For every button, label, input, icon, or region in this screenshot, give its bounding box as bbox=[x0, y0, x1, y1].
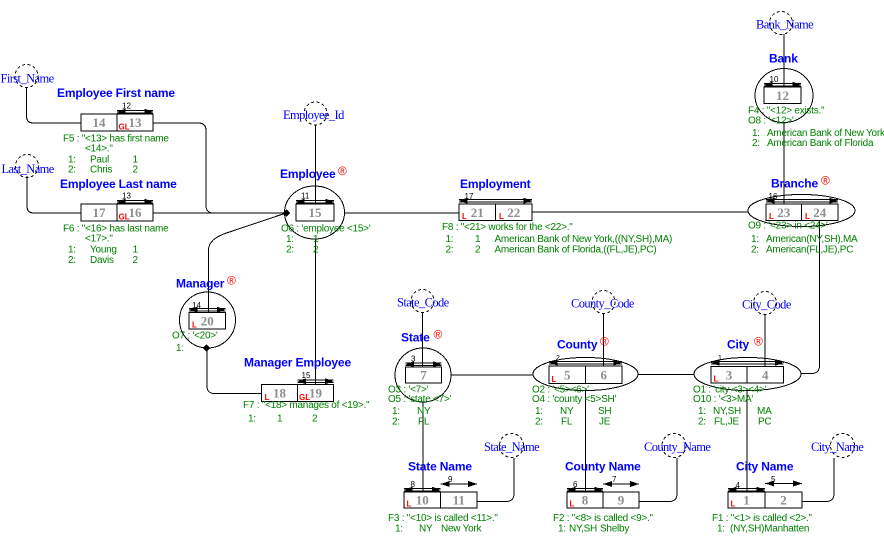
junction Employee connection point bbox=[283, 209, 290, 217]
svg-text:15: 15 bbox=[302, 371, 311, 380]
svg-text:NY: NY bbox=[419, 524, 433, 535]
role box 4 bbox=[747, 367, 784, 384]
svg-text:O6 : 'employee <15>': O6 : 'employee <15>' bbox=[281, 224, 371, 235]
svg-text:Manager Employee: Manager Employee bbox=[244, 356, 351, 370]
svg-text:1:: 1: bbox=[176, 343, 184, 354]
uniqueness arrow 8 bbox=[404, 480, 441, 493]
svg-text:First_Name: First_Name bbox=[1, 71, 55, 85]
svg-text:Employee First name: Employee First name bbox=[57, 86, 175, 100]
role box 22 bbox=[496, 204, 533, 221]
svg-text:O10 : '<3>MA': O10 : '<3>MA' bbox=[693, 394, 753, 405]
svg-text:L: L bbox=[552, 375, 557, 384]
role box 2 bbox=[765, 492, 802, 508]
role box 7 bbox=[406, 367, 442, 383]
role box 23 bbox=[766, 204, 802, 221]
svg-text:FL: FL bbox=[561, 416, 573, 427]
svg-text:®: ® bbox=[821, 174, 830, 188]
svg-text:F3 : "<10> is called <11>.": F3 : "<10> is called <11>." bbox=[388, 513, 498, 524]
wire Last_Name to role 17 bbox=[27, 176, 81, 213]
svg-text:10: 10 bbox=[416, 493, 429, 508]
svg-text:Manager: Manager bbox=[176, 277, 225, 291]
wire Manager junction to role 18 bbox=[207, 348, 262, 394]
svg-text:Bank_Name: Bank_Name bbox=[756, 18, 814, 32]
uniqueness arrow 1 bbox=[711, 355, 784, 366]
svg-text:PC: PC bbox=[758, 416, 771, 427]
svg-text:F5 : "<13> has first name: F5 : "<13> has first name bbox=[63, 134, 169, 145]
svg-text:City Name: City Name bbox=[736, 460, 794, 474]
junction Manager connection point bbox=[203, 344, 210, 352]
svg-text:5: 5 bbox=[564, 367, 571, 382]
wire County entity to role 8 bbox=[585, 391, 587, 493]
entity type Bank (ellipse) bbox=[755, 69, 813, 123]
svg-text:6: 6 bbox=[601, 367, 608, 382]
svg-text:2: 2 bbox=[475, 244, 481, 255]
svg-text:O8 : '<12>': O8 : '<12>' bbox=[748, 115, 794, 126]
svg-text:2: 2 bbox=[556, 355, 560, 362]
wire Employee_Id to role 15 bbox=[315, 125, 317, 205]
svg-text:12: 12 bbox=[776, 88, 789, 103]
svg-text:F1 : "<1> is called <2>.": F1 : "<1> is called <2>." bbox=[712, 513, 813, 524]
svg-text:22: 22 bbox=[507, 205, 520, 220]
svg-text:Employment: Employment bbox=[460, 177, 531, 191]
svg-text:2:: 2: bbox=[286, 244, 294, 255]
role box 16 bbox=[117, 204, 153, 221]
svg-text:Employee_Id: Employee_Id bbox=[283, 108, 345, 122]
uniqueness arrow 15 bbox=[298, 371, 334, 384]
role box 14 bbox=[81, 114, 117, 131]
svg-text:L: L bbox=[499, 212, 504, 221]
svg-text:County_Name: County_Name bbox=[644, 440, 711, 454]
svg-text:2: 2 bbox=[133, 165, 139, 176]
wire role 2 to City_Name bbox=[802, 458, 834, 502]
svg-text:American(FL,JE),PC: American(FL,JE),PC bbox=[766, 244, 853, 255]
role box 18 bbox=[262, 385, 298, 402]
svg-text:14: 14 bbox=[192, 301, 201, 310]
svg-text:State_Code: State_Code bbox=[397, 296, 450, 310]
role box 10 bbox=[404, 492, 441, 508]
wire role 9 to County_Name bbox=[639, 458, 677, 502]
wire State entity to role 10 bbox=[422, 403, 424, 493]
entity type Manager (circle) bbox=[180, 292, 236, 348]
svg-text:State_Name: State_Name bbox=[484, 440, 540, 454]
svg-text:10: 10 bbox=[770, 75, 779, 84]
wire Bank_Name to role 12 bbox=[783, 34, 785, 87]
uniqueness arrow 9 (single) bbox=[441, 475, 478, 487]
svg-text:Employee: Employee bbox=[280, 167, 336, 181]
wire County_Code to role 6 bbox=[603, 313, 605, 366]
svg-text:L: L bbox=[731, 500, 736, 509]
svg-text:County: County bbox=[557, 338, 598, 352]
svg-text:2: 2 bbox=[313, 244, 319, 255]
svg-text:2:: 2: bbox=[446, 244, 454, 255]
svg-text:2:: 2: bbox=[698, 416, 706, 427]
svg-text:Employee Last name: Employee Last name bbox=[60, 177, 177, 191]
role box 20 bbox=[189, 313, 226, 330]
wire role 13 to Employee junction bbox=[153, 123, 287, 213]
svg-text:23: 23 bbox=[777, 205, 791, 220]
entity type City (ellipse) bbox=[694, 358, 801, 391]
svg-text:Shelby: Shelby bbox=[600, 524, 629, 535]
uniqueness arrow 16 bbox=[766, 192, 838, 204]
svg-text:3: 3 bbox=[726, 367, 733, 382]
wire State_Code to role 7 bbox=[422, 312, 424, 367]
wire Employee junction to Manager entity bbox=[209, 213, 288, 313]
role box 1 bbox=[728, 492, 765, 508]
svg-text:16: 16 bbox=[769, 192, 778, 201]
uniqueness arrow 6 bbox=[567, 480, 603, 493]
role box 5 bbox=[549, 366, 586, 384]
wire Bank entity to role 23 bbox=[783, 123, 785, 204]
entity type State (ellipse) bbox=[395, 348, 451, 402]
svg-text:1:: 1: bbox=[395, 524, 403, 535]
role box 12 bbox=[764, 87, 801, 104]
svg-text:American Bank of Florida: American Bank of Florida bbox=[767, 138, 874, 149]
svg-text:16: 16 bbox=[129, 205, 143, 220]
svg-text:O9 : '<23> in <24>': O9 : '<23> in <24>' bbox=[748, 221, 828, 232]
uniqueness arrow 10 bbox=[764, 75, 801, 88]
svg-text:1: 1 bbox=[718, 355, 722, 362]
svg-text:1: 1 bbox=[277, 413, 283, 424]
svg-text:8: 8 bbox=[411, 480, 416, 489]
role box 3 bbox=[711, 367, 747, 384]
svg-text:L: L bbox=[462, 212, 467, 221]
svg-text:3: 3 bbox=[411, 355, 416, 364]
entity type County (ellipse) bbox=[533, 358, 638, 391]
svg-text:L: L bbox=[192, 321, 197, 330]
wire County entity to City entity bbox=[638, 374, 694, 376]
svg-text:L: L bbox=[570, 500, 575, 509]
svg-text:County_Code: County_Code bbox=[571, 297, 635, 311]
svg-text:17: 17 bbox=[93, 205, 107, 220]
uniqueness arrow 4 bbox=[728, 481, 765, 493]
svg-text:®: ® bbox=[338, 164, 347, 178]
role box 15 bbox=[296, 204, 334, 221]
svg-text:GL: GL bbox=[119, 213, 130, 222]
svg-text:17: 17 bbox=[465, 192, 474, 201]
wire role 24 to City entity bbox=[801, 221, 820, 374]
svg-text:Davis: Davis bbox=[90, 255, 114, 266]
role box 24 bbox=[802, 204, 839, 221]
lexical object type circle Last_Name bbox=[16, 155, 39, 178]
svg-text:7: 7 bbox=[420, 368, 427, 383]
svg-text:1:: 1: bbox=[717, 524, 725, 535]
svg-text:GL: GL bbox=[119, 123, 130, 132]
svg-text:O4 : 'county <5>SH': O4 : 'county <5>SH' bbox=[532, 394, 616, 405]
svg-text:2:: 2: bbox=[68, 165, 76, 176]
svg-text:®: ® bbox=[434, 328, 443, 342]
svg-text:5: 5 bbox=[771, 475, 776, 484]
svg-text:24: 24 bbox=[813, 205, 827, 220]
svg-text:20: 20 bbox=[201, 313, 214, 328]
svg-text:1:: 1: bbox=[248, 413, 256, 424]
svg-text:F2 : "<8> is called <9>.": F2 : "<8> is called <9>." bbox=[553, 513, 654, 524]
wire role 16 to Employee junction bbox=[153, 212, 287, 214]
lexical object type circle County_Code bbox=[592, 291, 615, 314]
svg-text:7: 7 bbox=[612, 475, 617, 484]
svg-text:14: 14 bbox=[93, 115, 107, 130]
svg-text:State: State bbox=[401, 331, 430, 345]
uniqueness arrow 12 bbox=[117, 102, 153, 115]
svg-text:18: 18 bbox=[273, 386, 287, 401]
svg-text:FL,JE: FL,JE bbox=[714, 416, 739, 427]
svg-text:9: 9 bbox=[618, 493, 625, 508]
svg-text:15: 15 bbox=[309, 205, 323, 220]
svg-text:19: 19 bbox=[309, 386, 323, 401]
svg-text:New York: New York bbox=[441, 524, 482, 535]
wire State entity to County entity bbox=[451, 374, 534, 376]
lexical object type circle State_Code bbox=[411, 290, 434, 313]
wire role 22 to Branche entity bbox=[532, 211, 748, 213]
svg-text:4: 4 bbox=[736, 481, 741, 490]
svg-text:Last_Name: Last_Name bbox=[2, 162, 55, 176]
svg-text:L: L bbox=[407, 500, 412, 509]
uniqueness arrow 2 bbox=[549, 355, 622, 366]
lexical object type circle Employee_Id bbox=[304, 102, 327, 125]
svg-text:County Name: County Name bbox=[565, 460, 641, 474]
svg-text:2: 2 bbox=[133, 255, 139, 266]
svg-text:12: 12 bbox=[122, 102, 131, 111]
svg-text:O7 : '<20>': O7 : '<20>' bbox=[172, 331, 218, 342]
role box 21 bbox=[459, 204, 496, 221]
svg-text:6: 6 bbox=[573, 480, 578, 489]
svg-text:City_Code: City_Code bbox=[742, 298, 792, 312]
uniqueness arrow 7 (single) bbox=[603, 475, 639, 487]
svg-text:<14>.": <14>." bbox=[85, 144, 113, 155]
svg-text:Branche: Branche bbox=[771, 177, 818, 191]
uniqueness arrow 3 bbox=[406, 355, 442, 368]
uniqueness arrow 13 bbox=[117, 192, 153, 205]
svg-text:21: 21 bbox=[471, 205, 484, 220]
wire Employee entity to role 21 bbox=[345, 212, 460, 214]
wire City entity to role 1 bbox=[746, 391, 748, 493]
wire First_Name to role 14 bbox=[27, 88, 82, 124]
uniqueness arrow 5 (single) bbox=[765, 475, 802, 487]
svg-text:JE: JE bbox=[599, 416, 611, 427]
wire role 11 to State_Name bbox=[477, 458, 514, 502]
svg-text:<17>.": <17>." bbox=[85, 234, 113, 245]
lexical object type circle State_Name bbox=[500, 434, 524, 458]
svg-text:Bank: Bank bbox=[769, 52, 798, 66]
svg-text:13: 13 bbox=[122, 192, 131, 201]
role box 11 bbox=[441, 492, 478, 508]
svg-text:American Bank of Florida,((FL,: American Bank of Florida,((FL,JE),PC) bbox=[495, 244, 657, 255]
role box 17 bbox=[81, 204, 117, 221]
svg-text:City_Name: City_Name bbox=[811, 440, 864, 454]
svg-text:9: 9 bbox=[448, 475, 453, 484]
svg-text:F8 : "<21> works for the <22>.: F8 : "<21> works for the <22>." bbox=[442, 222, 573, 233]
lexical object type circle Bank_Name bbox=[770, 12, 793, 35]
uniqueness arrow 17 bbox=[459, 192, 532, 204]
svg-text:2:: 2: bbox=[68, 255, 76, 266]
svg-text:1: 1 bbox=[743, 493, 750, 508]
lexical object type circle First_Name bbox=[15, 65, 38, 88]
svg-text:F6 : "<16> has last name: F6 : "<16> has last name bbox=[63, 224, 169, 235]
role box 6 bbox=[586, 366, 623, 384]
role box 19 bbox=[298, 385, 334, 402]
uniqueness arrow 11 bbox=[296, 192, 334, 205]
wire Employee entity to role 19 bbox=[315, 239, 317, 385]
role box 8 bbox=[567, 492, 603, 508]
svg-text:2: 2 bbox=[312, 413, 318, 424]
svg-text:2:: 2: bbox=[392, 416, 400, 427]
svg-text:2:: 2: bbox=[535, 416, 543, 427]
entity type Branche (ellipse) bbox=[748, 195, 855, 227]
svg-text:13: 13 bbox=[129, 115, 143, 130]
svg-text:Chris: Chris bbox=[90, 165, 112, 176]
lexical object type circle County_Name bbox=[662, 434, 686, 458]
svg-text:O5 : 'state <7>': O5 : 'state <7>' bbox=[388, 394, 452, 405]
role box 9 bbox=[603, 492, 639, 508]
svg-text:(NY,SH)Manhatten: (NY,SH)Manhatten bbox=[730, 524, 809, 535]
svg-text:FL: FL bbox=[418, 416, 430, 427]
wire City_Code to role 4 bbox=[764, 314, 766, 367]
svg-text:L: L bbox=[714, 375, 719, 384]
svg-text:®: ® bbox=[600, 335, 609, 349]
lexical object type circle City_Code bbox=[754, 292, 777, 315]
svg-text:F7 : "<18> manages of <19>.": F7 : "<18> manages of <19>." bbox=[243, 400, 370, 411]
svg-text:State Name: State Name bbox=[408, 460, 472, 474]
svg-text:2:: 2: bbox=[752, 138, 760, 149]
entity type Employee (ellipse) bbox=[285, 186, 345, 239]
svg-text:®: ® bbox=[227, 274, 236, 288]
svg-text:1:: 1: bbox=[558, 524, 566, 535]
svg-text:8: 8 bbox=[582, 493, 589, 508]
svg-text:4: 4 bbox=[762, 367, 769, 382]
svg-text:NY,SH: NY,SH bbox=[569, 524, 597, 535]
svg-text:City: City bbox=[727, 338, 750, 352]
lexical object type circle City_Name bbox=[831, 434, 855, 458]
svg-text:2:: 2: bbox=[751, 244, 759, 255]
svg-text:2: 2 bbox=[780, 493, 787, 508]
svg-text:11: 11 bbox=[301, 192, 310, 201]
svg-text:11: 11 bbox=[453, 493, 465, 508]
role box 13 bbox=[117, 114, 153, 131]
svg-text:®: ® bbox=[754, 335, 763, 349]
uniqueness arrow 14 bbox=[189, 301, 226, 313]
